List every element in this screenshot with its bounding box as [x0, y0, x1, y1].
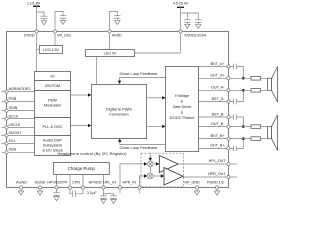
- svg-text:LRCLK: LRCLK: [9, 123, 21, 127]
- svg-text:BST_B+: BST_B+: [211, 134, 225, 138]
- svg-text:SCL: SCL: [9, 139, 16, 143]
- svg-text:BST_A-: BST_A-: [212, 97, 226, 101]
- svg-text:LDO 5V: LDO 5V: [104, 52, 117, 56]
- svg-text:HPR_IN: HPR_IN: [122, 180, 136, 184]
- svg-text:SDA: SDA: [9, 147, 17, 151]
- svg-text:OUT_A-: OUT_A-: [211, 86, 225, 90]
- svg-text:3.3 μF: 3.3 μF: [87, 191, 96, 195]
- svg-text:Gate Driver: Gate Driver: [173, 105, 193, 109]
- svg-text:DC/DC Protect: DC/DC Protect: [170, 116, 194, 120]
- svg-text:Close Loop Feedback: Close Loop Feedback: [120, 145, 158, 150]
- svg-text:SDOUT: SDOUT: [9, 131, 23, 135]
- svg-text:HPVSS: HPVSS: [47, 180, 60, 184]
- svg-text:OUT_B-: OUT_B-: [211, 122, 225, 126]
- svg-text:BST_B-: BST_B-: [212, 112, 226, 116]
- svg-text:SDIN: SDIN: [9, 106, 18, 110]
- svg-text:Close Loop Feedback: Close Loop Feedback: [120, 71, 158, 76]
- svg-text:Modulator: Modulator: [44, 103, 62, 108]
- svg-text:PVDD1/2/3/4: PVDD1/2/3/4: [185, 33, 207, 37]
- svg-text:OUT_A+: OUT_A+: [210, 74, 224, 78]
- svg-text:OUT_B+: OUT_B+: [210, 144, 224, 148]
- svg-text:Conversion: Conversion: [109, 112, 129, 117]
- svg-text:PDB: PDB: [9, 97, 17, 101]
- svg-text:DVDD: DVDD: [24, 33, 35, 37]
- svg-text:PGND 1/2: PGND 1/2: [207, 180, 224, 184]
- svg-text:HPR_OUT: HPR_OUT: [208, 172, 226, 176]
- svg-text:CPN: CPN: [72, 180, 80, 184]
- svg-text:AVDD: AVDD: [112, 33, 122, 37]
- svg-text:HPVDD: HPVDD: [89, 180, 102, 184]
- svg-text:H Bridge: H Bridge: [175, 94, 189, 98]
- svg-text:LDO 1.5V: LDO 1.5V: [43, 48, 59, 52]
- svg-text:1.1/1.8V: 1.1/1.8V: [27, 1, 41, 5]
- svg-text:CPP: CPP: [60, 180, 68, 184]
- svg-text:I2S/TDM: I2S/TDM: [45, 83, 60, 88]
- svg-text:DGND: DGND: [35, 180, 46, 184]
- svg-text:AGND: AGND: [16, 180, 27, 184]
- svg-text:ADR/MODE2: ADR/MODE2: [9, 87, 31, 91]
- svg-text:HPL_IN: HPL_IN: [103, 180, 116, 184]
- svg-text:SCLK: SCLK: [9, 114, 19, 118]
- svg-text:PLL & OSC: PLL & OSC: [43, 124, 63, 129]
- svg-text:IO: IO: [50, 74, 54, 79]
- svg-text:BST_A+: BST_A+: [211, 62, 225, 66]
- svg-text:HPL_OUT: HPL_OUT: [209, 159, 227, 163]
- svg-text:VR_DIG: VR_DIG: [57, 33, 71, 37]
- svg-text:4.5-26.4V: 4.5-26.4V: [173, 1, 189, 5]
- svg-text:Charge Pump: Charge Pump: [68, 166, 96, 171]
- svg-text:Headphone control (By I2C Regi: Headphone control (By I2C Register): [58, 151, 128, 156]
- svg-text:HP_GND: HP_GND: [184, 180, 200, 184]
